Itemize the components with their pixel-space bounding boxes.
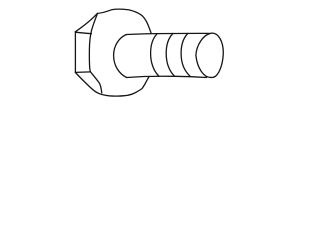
thread arc 3 [181,34,190,77]
bolt head hex bottom-left diagonal edge [75,73,96,93]
shaft top silhouette line [126,33,209,34]
hex flange bolt line drawing [0,0,300,106]
flange back-rim left silhouette arc [89,14,101,93]
flange outer top arc [97,9,151,33]
thread arc 1 [151,34,159,76]
thread arc 2 [166,34,174,77]
flange outer bottom arc [97,77,149,96]
bolt head hex top-left diagonal edge [75,13,97,31]
washer-face seat arc (large C at shaft base) [114,35,127,78]
bolt head hex left vertical edge [74,32,76,73]
bolt head hex top inner facet line [75,32,91,34]
shaft bottom silhouette line [127,76,207,77]
bolt head hex bottom inner facet line [75,71,90,74]
shaft end cap [196,33,223,77]
